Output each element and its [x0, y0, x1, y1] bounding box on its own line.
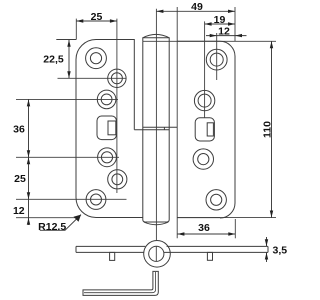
- arrow 12 top right: [235, 34, 242, 37]
- svg-text:R12.5: R12.5: [38, 221, 66, 233]
- svg-text:25: 25: [91, 11, 103, 23]
- svg-text:25: 25: [14, 173, 26, 185]
- extension line bottom edge right: [177, 217, 276, 219]
- extension line right plate right edge bottom: [234, 219, 236, 238]
- extension line right col 19: [204, 21, 206, 117]
- extension line top edge left: [56, 39, 76, 41]
- svg-text:12: 12: [13, 205, 25, 217]
- arrow 110 up: [270, 41, 273, 48]
- dim line 49: [156, 10, 235, 12]
- hole R-H2 right plate: [194, 90, 214, 110]
- arrow 49 right: [228, 10, 235, 13]
- side view pin inner circle: [149, 246, 164, 261]
- arrow 25 left: [76, 19, 83, 22]
- arrow leader R12.5: [74, 215, 82, 222]
- extension line left plate edge top: [75, 19, 77, 40]
- svg-text:110: 110: [261, 121, 273, 138]
- hole R-H4 right plate bottom: [206, 190, 226, 210]
- dim line 22,5: [68, 40, 70, 79]
- arrow 22,5 up: [67, 40, 70, 47]
- extension line left hole column: [116, 19, 118, 193]
- arrow 22,5 down: [67, 71, 70, 78]
- centerline hinge axis: [155, 9, 157, 241]
- hole H5 left plate: [108, 170, 127, 189]
- barrel top knuckle: [143, 34, 177, 222]
- hole H1 left plate top: [86, 48, 107, 69]
- arrow 49 left: [156, 10, 163, 13]
- hole H4 left plate: [98, 148, 117, 167]
- side view tab left: [110, 252, 115, 260]
- arrow 36 bottom right: [228, 232, 235, 235]
- hole R-H3 right plate: [193, 149, 213, 169]
- extension line top edge right / weld line: [143, 40, 276, 42]
- side view pin slot line: [155, 246, 157, 261]
- side view barrel outer circle: [144, 241, 171, 268]
- hole R-H1 right plate top: [206, 49, 227, 70]
- left leaf plate outline: [76, 40, 143, 218]
- dim line 110: [271, 41, 273, 217]
- extension line bottom left: [16, 217, 79, 219]
- dim line 36-25-12 left chain: [28, 99, 30, 225]
- dim line 12 top: [206, 35, 247, 37]
- side view tab right: [207, 252, 212, 260]
- leader line R12.5: [40, 215, 81, 231]
- slot right plate: [195, 118, 214, 141]
- arrow 25 left down: [27, 192, 30, 199]
- arrow 12 left bottom: [27, 218, 30, 225]
- dim line 36 bottom: [177, 233, 235, 235]
- arrow 36 bottom left: [177, 232, 184, 235]
- allen key: [83, 271, 158, 295]
- arrow 25 left up: [27, 157, 30, 164]
- hole H6 left plate bottom: [86, 190, 106, 210]
- arrow 12 top left: [210, 34, 217, 37]
- svg-text:36: 36: [13, 123, 25, 135]
- hole H2 left plate: [108, 69, 126, 87]
- svg-text:36: 36: [198, 222, 210, 234]
- extension line row H4: [16, 156, 119, 158]
- dim line 25 top: [76, 20, 117, 22]
- extension line right col 12: [216, 33, 218, 80]
- arrow 3,5 down: [265, 239, 268, 246]
- svg-text:19: 19: [214, 14, 226, 26]
- hole H3 left plate: [97, 90, 116, 109]
- svg-text:22,5: 22,5: [43, 54, 64, 66]
- extension line right plate right edge top: [234, 7, 236, 41]
- dim line 3,5 lower: [266, 253, 268, 263]
- slot left plate: [97, 116, 116, 140]
- arrow 110 down: [270, 211, 273, 218]
- svg-text:12: 12: [218, 26, 230, 38]
- right leaf plate outline: [177, 41, 235, 218]
- arrow 19 right: [228, 22, 235, 25]
- arrow 36 left up: [27, 99, 30, 106]
- dim line 19: [205, 23, 235, 25]
- arrow 25 right: [110, 19, 117, 22]
- extension line row H6: [16, 198, 127, 200]
- side view bar right: [164, 246, 268, 252]
- side view bar left: [76, 246, 145, 252]
- arrow 36 left down: [27, 150, 30, 157]
- arrow 3,5 up: [265, 253, 268, 260]
- dim line 3,5 upper: [266, 237, 268, 246]
- barrel bottom knuckle: [134, 127, 169, 224]
- extension line right plate left edge: [176, 7, 178, 238]
- svg-text:49: 49: [191, 1, 203, 13]
- extension line row H2: [58, 77, 127, 79]
- arrow 19 left: [205, 22, 212, 25]
- extension line row H3: [16, 98, 118, 100]
- svg-text:3,5: 3,5: [272, 245, 287, 257]
